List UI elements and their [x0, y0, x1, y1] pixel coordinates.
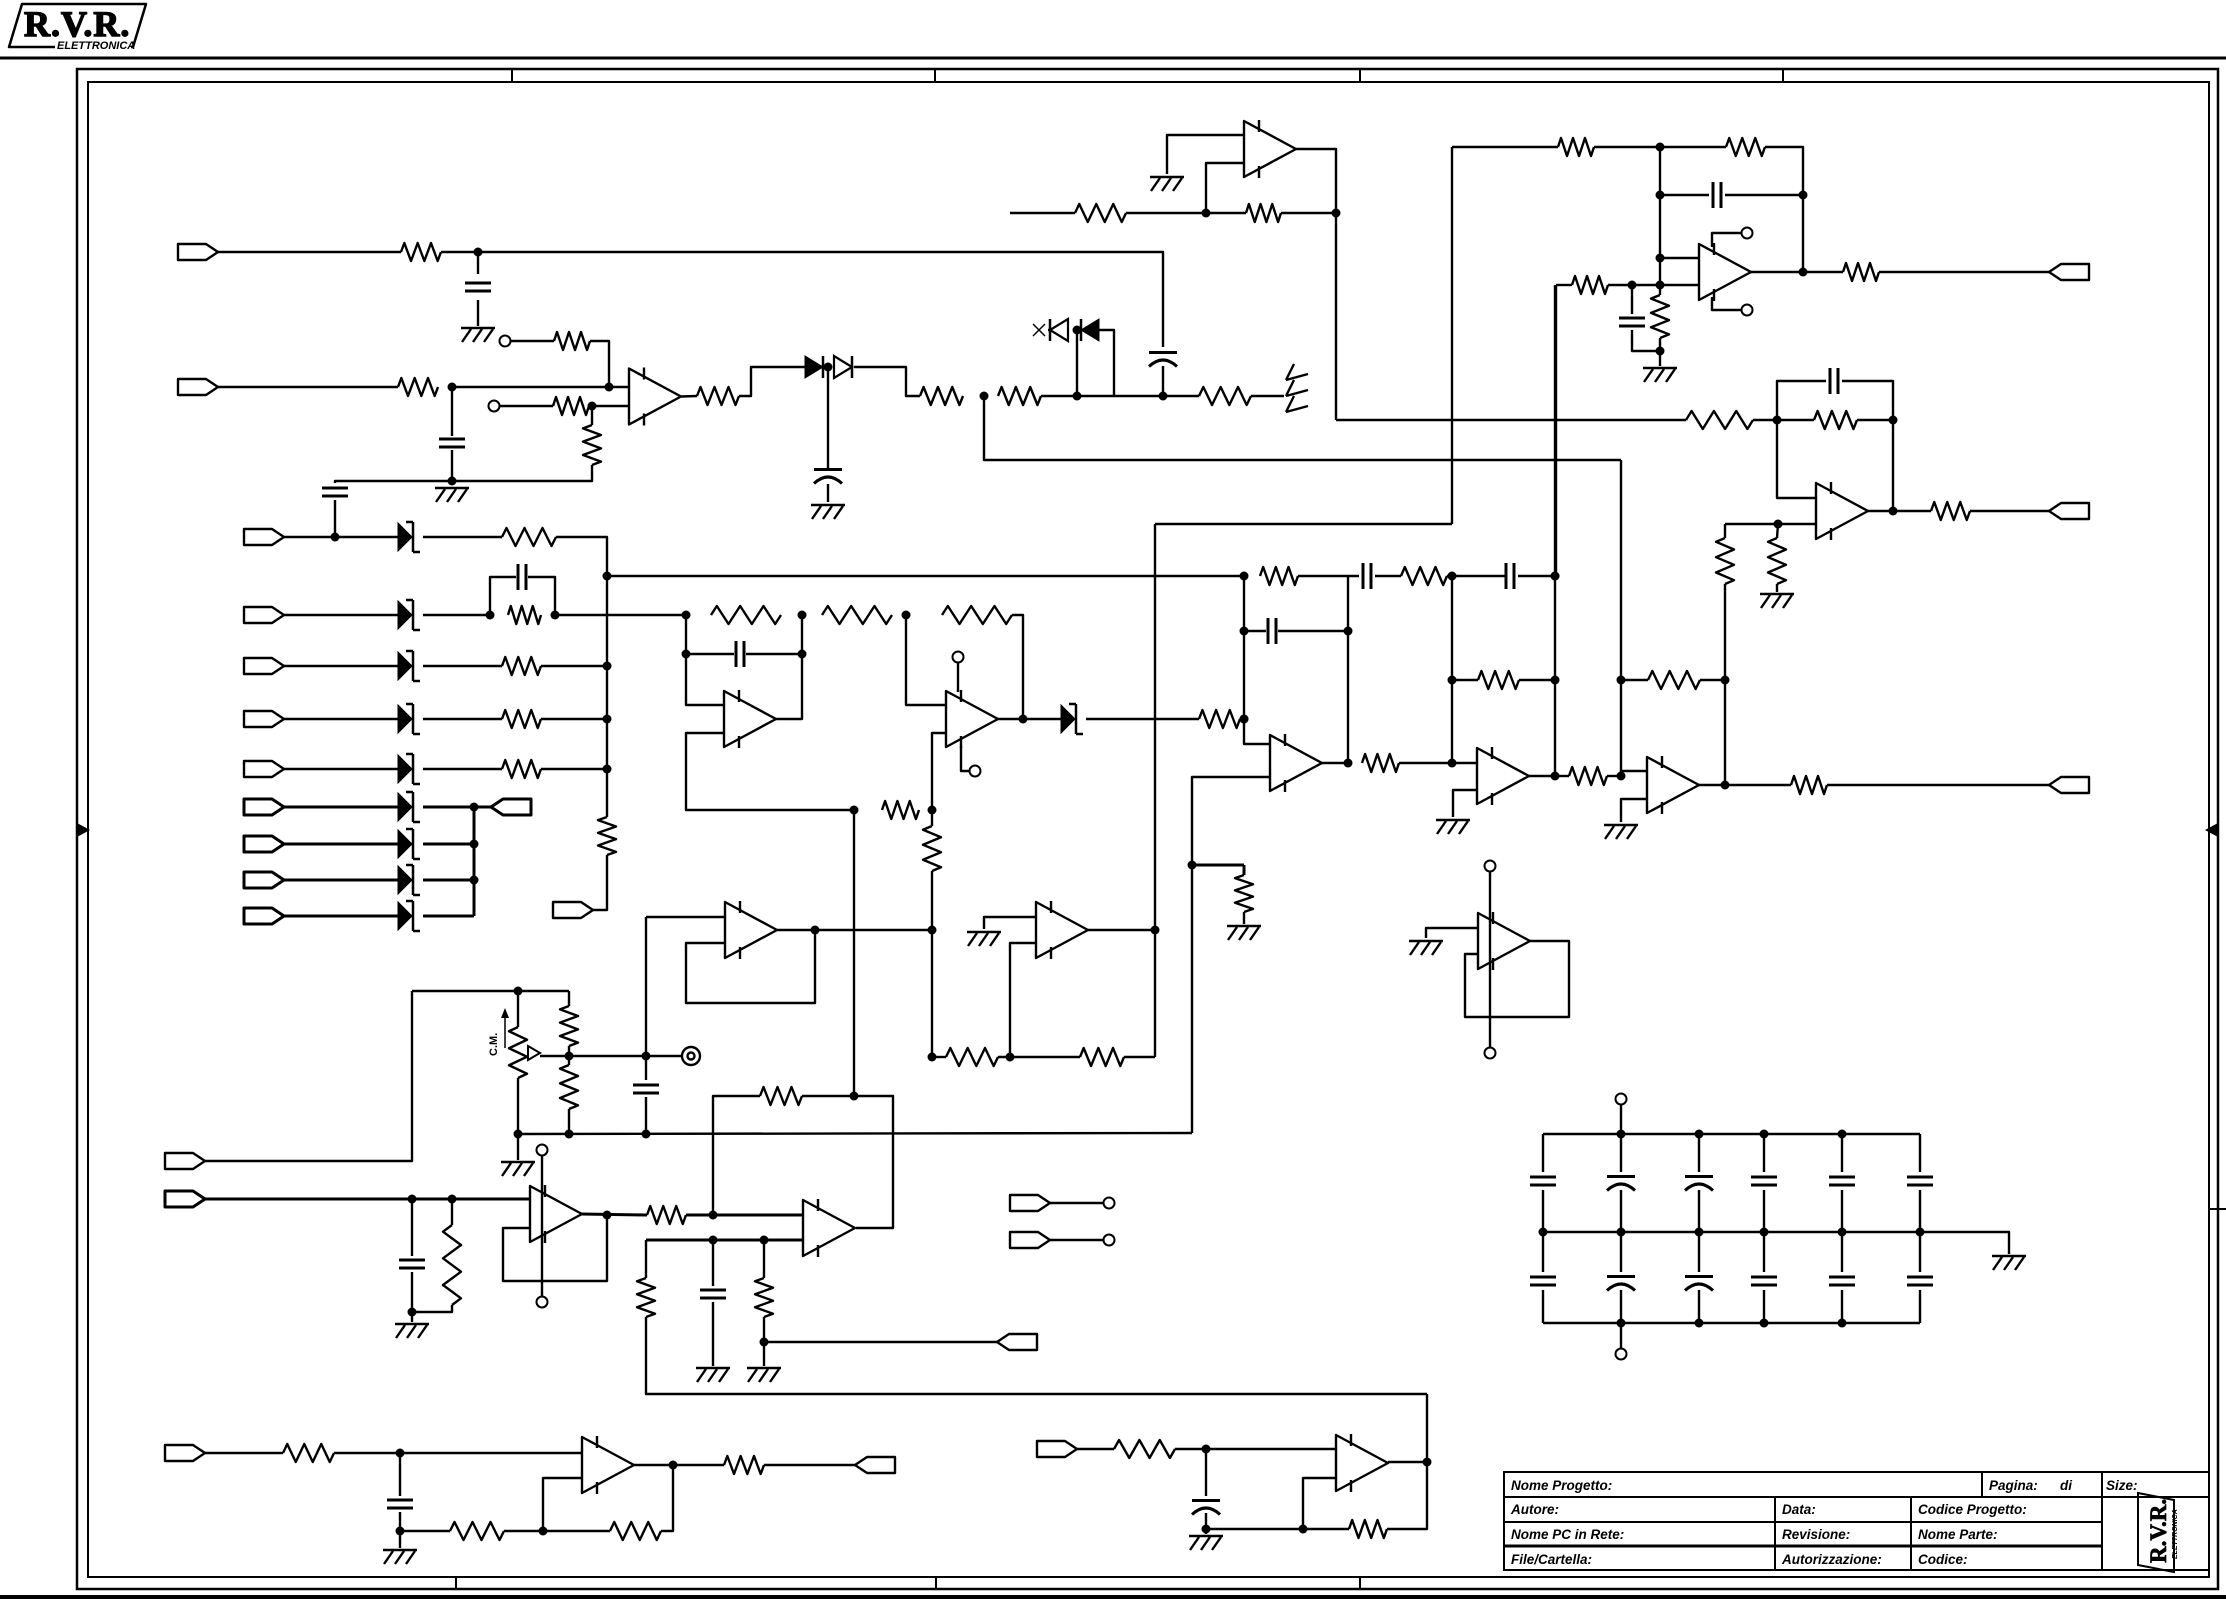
wire	[763, 1317, 765, 1366]
zener D11	[398, 830, 412, 858]
diode D3	[1050, 319, 1068, 341]
connector J7	[244, 761, 284, 777]
resistor R29	[1558, 138, 1594, 156]
zener D7	[398, 652, 412, 680]
node	[1656, 254, 1665, 263]
op-amp U16	[1336, 1435, 1388, 1491]
wire	[400, 1530, 450, 1532]
node	[798, 611, 807, 620]
node	[603, 662, 612, 671]
node	[1202, 1525, 1211, 1534]
node	[1760, 1130, 1769, 1139]
resistor R6	[697, 387, 739, 405]
connector J24	[1037, 1441, 1077, 1457]
title block logo cell	[2101, 1472, 2103, 1570]
node	[760, 1236, 769, 1245]
resistor R33	[1843, 263, 1879, 281]
node	[605, 383, 614, 392]
node	[603, 1211, 612, 1220]
capacitor C2 polarized	[1149, 351, 1177, 354]
wire x412	[204, 991, 412, 1161]
wire	[1753, 419, 1777, 421]
op-amp U11	[1036, 902, 1088, 958]
wire	[452, 386, 629, 388]
node	[603, 715, 612, 724]
ground	[1760, 593, 1794, 595]
node row A cap tap	[331, 533, 340, 542]
sheet bottom rule	[0, 1595, 2226, 1599]
ground	[747, 1367, 781, 1369]
node	[1551, 772, 1560, 781]
cap loop U2	[685, 615, 687, 654]
connector J18	[165, 1191, 205, 1207]
wire U7 -in	[1206, 163, 1244, 213]
node	[824, 363, 833, 372]
wire y1342	[764, 1341, 997, 1343]
node	[448, 383, 457, 392]
wire y576 bus	[607, 575, 1244, 577]
wire y1529	[1206, 1528, 1349, 1530]
wire	[1099, 330, 1114, 396]
node	[1695, 1319, 1704, 1328]
node	[1448, 572, 1457, 581]
wire	[284, 915, 398, 918]
node	[1889, 416, 1898, 425]
bank cap C19 top	[1763, 1134, 1765, 1172]
node	[1916, 1228, 1925, 1237]
bank cap C16 top	[1542, 1134, 1544, 1172]
wire U11 -in	[1010, 943, 1036, 1057]
wire	[1375, 575, 1401, 577]
capacitor C4	[439, 438, 465, 441]
wire	[1077, 1448, 1114, 1450]
wire	[1041, 395, 1163, 397]
wire	[1399, 762, 1452, 764]
wire y420	[1336, 419, 1686, 421]
svg-text:Size:: Size:	[2106, 1478, 2138, 1493]
wire	[423, 665, 502, 667]
connector J6	[244, 711, 284, 727]
wire row B to filter	[555, 614, 686, 616]
connector J20	[1010, 1195, 1050, 1211]
wire U11 out	[1088, 929, 1155, 931]
wire	[1725, 194, 1803, 196]
wire x932	[931, 810, 933, 826]
svg-text:Nome Progetto:: Nome Progetto:	[1511, 1478, 1612, 1493]
wire	[510, 340, 554, 342]
wire U2 -in	[686, 733, 854, 810]
wire	[284, 768, 398, 770]
capacitor C15	[700, 1289, 726, 1292]
x1621 feedback chain	[1620, 460, 1622, 776]
node	[682, 611, 691, 620]
title block mini logo rotated	[2138, 1493, 2179, 1572]
capacitor CB	[517, 564, 520, 590]
zener D12	[398, 866, 412, 894]
wire x1452 link	[1451, 576, 1453, 763]
resistor R26	[1814, 411, 1857, 429]
wire	[1803, 271, 1843, 273]
wire x1555	[1554, 285, 1556, 776]
node	[1332, 209, 1341, 218]
frame zone tick top 2	[934, 69, 936, 82]
zener D13	[398, 902, 412, 930]
wire	[1050, 1202, 1103, 1204]
wire	[661, 1465, 673, 1531]
resistor RA	[502, 528, 556, 546]
zener D6	[398, 601, 412, 629]
zener D9	[398, 755, 412, 783]
wire	[556, 537, 607, 817]
capacitor C7	[1362, 563, 1365, 589]
node	[1423, 1458, 1432, 1467]
node	[669, 1461, 678, 1470]
connector J15	[2049, 503, 2089, 519]
wire	[1452, 679, 1478, 681]
wire	[504, 1530, 610, 1532]
wire	[541, 665, 607, 667]
resistor R45	[283, 1444, 334, 1462]
wire U15 out	[634, 1464, 673, 1466]
wire	[1555, 775, 1569, 777]
connector J22	[165, 1445, 205, 1461]
ground	[1604, 824, 1638, 826]
op-amp U4	[1270, 735, 1322, 791]
frame mid arrow right	[2205, 823, 2218, 837]
wire	[205, 1452, 283, 1454]
wire	[423, 915, 474, 918]
node	[1448, 759, 1457, 768]
node U4 out	[1344, 759, 1353, 768]
pot RV2	[517, 991, 519, 1027]
RVR logo elettronica text	[55, 40, 131, 51]
resistor RE	[502, 760, 541, 778]
ground	[696, 1367, 730, 1369]
x1725 chain	[1724, 524, 1726, 538]
wire	[334, 1452, 582, 1454]
wire	[1163, 395, 1199, 397]
wire	[423, 879, 474, 882]
wire	[1387, 1394, 1427, 1529]
resistor RB	[508, 606, 541, 624]
ground	[461, 327, 495, 329]
resistor R23	[1075, 204, 1126, 222]
wire x713 fb	[713, 1096, 760, 1215]
wire	[399, 1512, 401, 1548]
wire y1199	[204, 1198, 530, 1201]
bank bottom terminal	[1620, 1323, 1622, 1348]
wire x1452 top	[1451, 147, 1453, 524]
wire	[739, 367, 805, 396]
wire wiper row	[540, 1055, 646, 1057]
ground	[383, 1549, 417, 1551]
wire	[218, 251, 401, 253]
ground	[1227, 925, 1261, 927]
node	[603, 765, 612, 774]
node	[470, 876, 479, 885]
resistor R37	[923, 826, 941, 871]
title block row1 dividers	[1981, 1472, 1983, 1497]
wire	[1347, 576, 1349, 763]
connector J2	[178, 379, 218, 395]
node	[1773, 416, 1782, 425]
node	[1551, 572, 1560, 581]
bank top terminal	[1616, 1094, 1627, 1105]
svg-text:Data:: Data:	[1782, 1502, 1816, 1517]
resistor R18	[1478, 671, 1519, 689]
op-amp U9	[1699, 244, 1751, 300]
capacitor C10	[1829, 368, 1832, 394]
wire U3 +in	[906, 615, 946, 705]
node	[514, 1130, 523, 1139]
wire	[541, 718, 607, 720]
bank cap C25 bottom	[1763, 1232, 1765, 1272]
wire x764 lower	[763, 1240, 765, 1278]
wire	[474, 806, 491, 809]
wire x646 lower	[645, 1240, 647, 1278]
node	[1617, 676, 1626, 685]
bank top rail	[1543, 1133, 1920, 1135]
node	[1448, 676, 1457, 685]
wire x713 lower	[712, 1240, 714, 1286]
ground	[1150, 176, 1184, 178]
svg-text:Autore:: Autore:	[1510, 1502, 1559, 1517]
wire	[412, 1305, 452, 1312]
RVR logo frame	[9, 4, 146, 47]
node	[811, 926, 820, 935]
capacitor C13	[633, 1084, 659, 1087]
wire x1192	[1191, 865, 1193, 1133]
terminal	[1104, 1198, 1115, 1209]
wire x854	[853, 810, 855, 1096]
connector J10	[244, 872, 284, 888]
wire	[1620, 1105, 1622, 1134]
wire	[411, 1272, 413, 1312]
wire	[423, 806, 474, 809]
ground	[1436, 819, 1470, 821]
node +in	[1774, 520, 1783, 529]
wire U3 out	[998, 718, 1061, 720]
node	[642, 1052, 651, 1061]
node	[1695, 1130, 1704, 1139]
wire U12 out	[581, 1214, 647, 1215]
capacitor C28	[399, 1453, 401, 1496]
node	[396, 1449, 405, 1458]
frame zone tick bottom 3	[1359, 1577, 1361, 1589]
svg-text:Revisione:: Revisione:	[1782, 1527, 1850, 1542]
node	[1721, 781, 1730, 790]
node	[980, 392, 989, 401]
wire rows F-I bus	[473, 807, 476, 916]
wire	[499, 405, 553, 407]
capacitor C29 polarized	[1205, 1449, 1207, 1496]
wire	[423, 768, 502, 770]
bank cap C17 top	[1620, 1134, 1622, 1172]
wire U10 +in	[646, 916, 725, 918]
wire	[284, 879, 398, 882]
resistor R25	[1686, 411, 1753, 429]
resistor R1	[401, 243, 441, 261]
resistor R48	[724, 1456, 764, 1474]
wire	[1076, 330, 1078, 396]
cap loop C9	[1244, 576, 1270, 744]
zener D14	[1061, 705, 1075, 733]
wire	[541, 768, 607, 770]
svg-text:Autorizzazione:: Autorizzazione:	[1781, 1552, 1882, 1567]
node	[709, 1211, 718, 1220]
wire	[1765, 147, 1803, 272]
wire	[1243, 865, 1246, 875]
U14 power pins	[1485, 861, 1496, 872]
wire U5 out	[1529, 775, 1555, 777]
wire	[686, 1214, 802, 1217]
resistor R17	[1362, 754, 1399, 772]
wire x646 chain	[645, 917, 647, 1080]
U9 bottom terminal	[1742, 305, 1753, 316]
wire	[1518, 575, 1555, 577]
wire U9 -in	[1660, 284, 1699, 286]
node	[603, 572, 612, 581]
node	[474, 248, 483, 257]
wire x1556 drop	[1555, 285, 1557, 576]
wire U8t out	[1868, 510, 1893, 512]
wire	[334, 500, 336, 537]
resistor R42	[760, 1087, 802, 1105]
frame zone tick bottom 1	[455, 1577, 457, 1589]
wire U7 +in gnd leg	[1167, 135, 1244, 174]
resistor R47	[610, 1522, 661, 1540]
capacitor C1	[465, 282, 491, 285]
node	[928, 1053, 937, 1062]
resistor R8	[998, 387, 1041, 405]
op-amp U13	[803, 1200, 855, 1256]
wire	[1086, 718, 1199, 720]
wire	[218, 386, 398, 388]
resistor R21	[1648, 671, 1700, 689]
node	[1202, 209, 1211, 218]
wire	[1126, 212, 1246, 214]
resistor R36	[1080, 1048, 1124, 1066]
bank cap C18 top	[1698, 1134, 1700, 1172]
resistor R16	[1401, 567, 1447, 585]
U12 fb box	[503, 1214, 607, 1281]
svg-text:C.M.: C.M.	[488, 1033, 500, 1056]
bank bottom rail	[1543, 1322, 1920, 1324]
capacitor C3	[322, 487, 348, 490]
wire y865	[1192, 864, 1244, 867]
connector J3	[244, 529, 284, 545]
wire U8t +in	[1725, 523, 1816, 525]
resistor R7	[920, 387, 963, 405]
connector J21	[1010, 1232, 1050, 1248]
svg-text:ELETTRONICA: ELETTRONICA	[57, 40, 135, 52]
trimmer terminal	[500, 336, 511, 347]
test point TP1	[646, 1055, 682, 1057]
resistor R24	[1246, 204, 1281, 222]
resistor R9	[1199, 387, 1251, 405]
cap loop U8t	[1777, 381, 1826, 420]
wire U5 +in	[1452, 762, 1477, 764]
wire U16 -in	[1303, 1478, 1336, 1529]
capacitor C5 polarized	[814, 468, 842, 471]
ground	[967, 931, 1001, 933]
wire	[284, 806, 398, 809]
connector J11	[244, 908, 284, 924]
svg-text:File/Cartella:: File/Cartella:	[1511, 1552, 1592, 1567]
wire feedback	[1892, 420, 1894, 511]
op-amp U5	[1477, 748, 1529, 804]
wire	[1777, 419, 1814, 421]
node	[1656, 191, 1665, 200]
node	[1695, 1228, 1704, 1237]
ground	[411, 1312, 413, 1322]
ground	[1409, 940, 1443, 942]
wire	[802, 1095, 854, 1097]
connector J23	[855, 1457, 895, 1473]
title block col dividers	[1774, 1497, 1776, 1570]
capacitor C6	[735, 641, 738, 667]
ground	[1205, 1529, 1207, 1534]
wire	[712, 1302, 714, 1366]
pot wiper	[528, 1046, 540, 1060]
wire U11 +gnd	[984, 917, 1036, 929]
resistor R19	[1569, 767, 1607, 785]
frame notch right	[2209, 1208, 2226, 1210]
wire U4 -in	[1192, 777, 1270, 865]
sheet top rule	[0, 57, 2226, 60]
wire U6 out	[1699, 784, 1725, 786]
node	[1073, 392, 1082, 401]
U3 top terminal	[953, 652, 964, 663]
node	[514, 987, 523, 996]
U12 power pins	[537, 1145, 548, 1156]
connector J19	[997, 1334, 1037, 1350]
wire	[1447, 575, 1506, 577]
wire y460 loop	[984, 396, 1621, 460]
resistor R38	[568, 991, 570, 1006]
node	[539, 1527, 548, 1536]
wire	[592, 405, 629, 407]
resistor R44	[755, 1278, 773, 1317]
wire	[1298, 575, 1359, 577]
resistor RV1	[598, 817, 616, 855]
connector J13	[491, 799, 531, 815]
bank cap C27 bottom	[1919, 1232, 1921, 1272]
wire U8t -in	[1777, 420, 1816, 498]
node	[408, 1195, 417, 1204]
wire cap row	[1660, 194, 1709, 196]
resistor R28	[1931, 502, 1970, 520]
node	[1240, 572, 1249, 581]
node	[1656, 143, 1665, 152]
capacitor C14	[411, 1199, 413, 1256]
wire	[1205, 1513, 1207, 1529]
wire	[1322, 762, 1348, 764]
wire U13 -row y1240	[646, 1239, 802, 1242]
diode D1	[805, 356, 823, 378]
wire	[490, 577, 516, 615]
wire	[423, 536, 502, 538]
chassis ground	[1286, 374, 1308, 380]
resistor R11	[822, 606, 892, 624]
wire	[477, 252, 479, 274]
op-amp U8t	[1816, 483, 1868, 539]
ground	[811, 504, 845, 506]
connector J12	[553, 902, 593, 918]
pot arrow	[504, 1012, 506, 1048]
wire	[1050, 1239, 1103, 1241]
wire	[568, 1046, 570, 1065]
